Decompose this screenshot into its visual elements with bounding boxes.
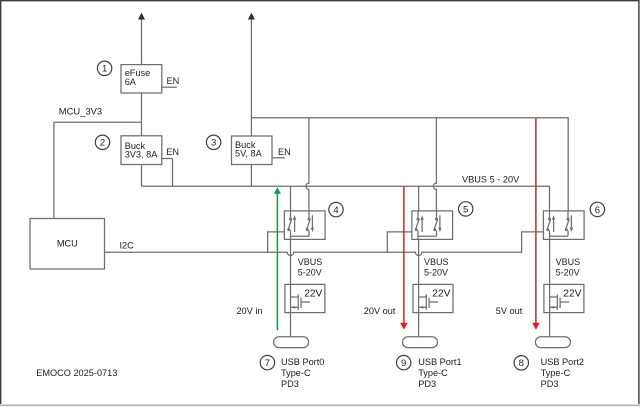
callout circle 2 xyxy=(95,135,109,149)
Buck 3V3 EN stub xyxy=(162,158,173,160)
red arrow 5V out xyxy=(535,118,537,323)
svg-text:MCU: MCU xyxy=(57,239,78,249)
svg-text:7: 7 xyxy=(265,358,270,369)
svg-text:22V: 22V xyxy=(563,289,581,300)
callout circle 3 xyxy=(206,135,220,149)
svg-text:5-20V: 5-20V xyxy=(556,268,580,278)
clamp 22V box port1 xyxy=(413,284,453,312)
svg-text:3V3, 8A: 3V3, 8A xyxy=(125,150,159,160)
mosfet Q2 xyxy=(419,294,438,310)
USB port2 connector xyxy=(535,337,570,348)
svg-text:MCU_3V3: MCU_3V3 xyxy=(59,105,102,116)
svg-text:Type-C: Type-C xyxy=(281,368,311,378)
switch SW3 internals xyxy=(547,211,573,240)
clamp 22V box port0 xyxy=(285,284,325,312)
arrowhead top output 1 xyxy=(138,13,145,20)
Buck 3V3 box xyxy=(121,136,162,165)
callout circle 4 xyxy=(329,202,343,216)
svg-text:VBUS 5 - 20V: VBUS 5 - 20V xyxy=(462,174,520,184)
svg-text:USB Port0: USB Port0 xyxy=(281,357,324,367)
eFuse U1 box xyxy=(121,65,162,93)
svg-text:3: 3 xyxy=(211,138,216,149)
wire: top rail to switch SW1 right pole (hop over VBUS rail) xyxy=(306,118,309,211)
callout circle 1 xyxy=(97,61,111,75)
wire: SW1 output down to USB port0 xyxy=(290,239,292,336)
MCU box xyxy=(30,219,105,270)
wire: top 20V rail xyxy=(251,118,568,211)
wire: VBUS 5-20V rail xyxy=(142,186,550,211)
wire: top rail to switch SW2 right pole (hop over VBUS rail) xyxy=(433,118,436,211)
svg-text:VBUS: VBUS xyxy=(298,257,323,267)
wire: I2C jog to switch SW1 xyxy=(268,232,285,252)
svg-text:5V out: 5V out xyxy=(496,306,523,316)
switch SW1 internals xyxy=(288,211,314,240)
Buck 5V box xyxy=(232,136,273,165)
svg-text:4: 4 xyxy=(333,205,338,216)
green arrow 20V in xyxy=(276,193,278,331)
svg-text:Type-C: Type-C xyxy=(418,368,448,378)
mosfet Q1 xyxy=(291,294,310,310)
svg-text:6A: 6A xyxy=(125,77,137,87)
svg-text:EN: EN xyxy=(278,147,291,157)
svg-text:9: 9 xyxy=(401,358,406,369)
wire: MCU_3V3 horizontal xyxy=(54,121,142,123)
svg-text:EMOCO 2025-0713: EMOCO 2025-0713 xyxy=(36,368,117,378)
USB port1 connector xyxy=(403,337,438,348)
svg-text:5-20V: 5-20V xyxy=(298,268,322,278)
red arrow 20V out xyxy=(403,187,405,324)
wire: Buck 3V3 EN down to VBUS rail xyxy=(172,159,174,187)
wire: Buck 5V input down to VBUS rail xyxy=(250,165,252,187)
mosfet Q3 xyxy=(550,294,569,310)
wire: MCU_3V3 down to MCU xyxy=(53,122,55,218)
switch SW1 (port0) box xyxy=(284,211,325,240)
svg-text:USB Port2: USB Port2 xyxy=(541,357,584,367)
switch SW2 internals xyxy=(415,211,441,240)
USB port0 connector xyxy=(274,337,309,348)
wire: Buck 5V output up to arrow xyxy=(250,18,252,136)
svg-text:VBUS: VBUS xyxy=(556,257,581,267)
svg-text:EN: EN xyxy=(167,76,180,86)
switch SW3 (port2) box xyxy=(543,211,584,240)
wire: VBUS rail to switch SW2 left pole xyxy=(418,186,420,211)
wire: I2C bus with hops over port wires xyxy=(105,232,544,256)
callout circle 9 xyxy=(397,355,411,369)
svg-text:EN: EN xyxy=(166,147,179,157)
wire: eFuse output up to arrow xyxy=(141,18,143,65)
svg-text:PD3: PD3 xyxy=(418,379,436,389)
svg-text:20V out: 20V out xyxy=(364,306,396,316)
callout circle 7 xyxy=(260,355,274,369)
svg-text:6: 6 xyxy=(595,205,600,216)
svg-text:1: 1 xyxy=(102,64,107,75)
svg-text:20V in: 20V in xyxy=(236,306,262,316)
svg-text:5-20V: 5-20V xyxy=(424,268,448,278)
switch SW2 (port1) box xyxy=(412,211,453,240)
wire: SW3 output down to USB port2 xyxy=(549,239,551,336)
arrowhead top output 2 xyxy=(248,13,255,20)
svg-text:VBUS: VBUS xyxy=(424,257,449,267)
wire: SW2 output down to USB port1 xyxy=(418,239,420,336)
clamp 22V box port2 xyxy=(544,284,584,312)
svg-text:I2C: I2C xyxy=(120,240,135,250)
sheet bottom edge xyxy=(0,404,640,406)
wire: eFuse to Buck 3V3 (MCU_3V3 net) xyxy=(141,93,143,136)
svg-text:8: 8 xyxy=(519,358,524,369)
callout circle 6 xyxy=(590,202,604,216)
svg-text:22V: 22V xyxy=(432,289,450,300)
wire: Buck 3V3 input down to VBUS rail xyxy=(141,165,143,187)
eFuse EN stub xyxy=(162,86,177,88)
svg-text:22V: 22V xyxy=(304,289,322,300)
svg-text:PD3: PD3 xyxy=(281,379,299,389)
svg-text:PD3: PD3 xyxy=(541,379,559,389)
wire: VBUS rail to switch SW1 left pole xyxy=(290,186,292,211)
callout circle 5 xyxy=(459,202,473,216)
callout circle 8 xyxy=(514,356,528,370)
svg-text:Type-C: Type-C xyxy=(541,368,571,378)
svg-text:USB Port1: USB Port1 xyxy=(418,357,461,367)
svg-text:5: 5 xyxy=(463,204,468,215)
wire: I2C jog to switch SW2 xyxy=(387,232,412,252)
Buck 5V EN stub xyxy=(272,157,285,159)
svg-text:2: 2 xyxy=(100,138,105,149)
svg-text:5V, 8A: 5V, 8A xyxy=(235,149,263,159)
